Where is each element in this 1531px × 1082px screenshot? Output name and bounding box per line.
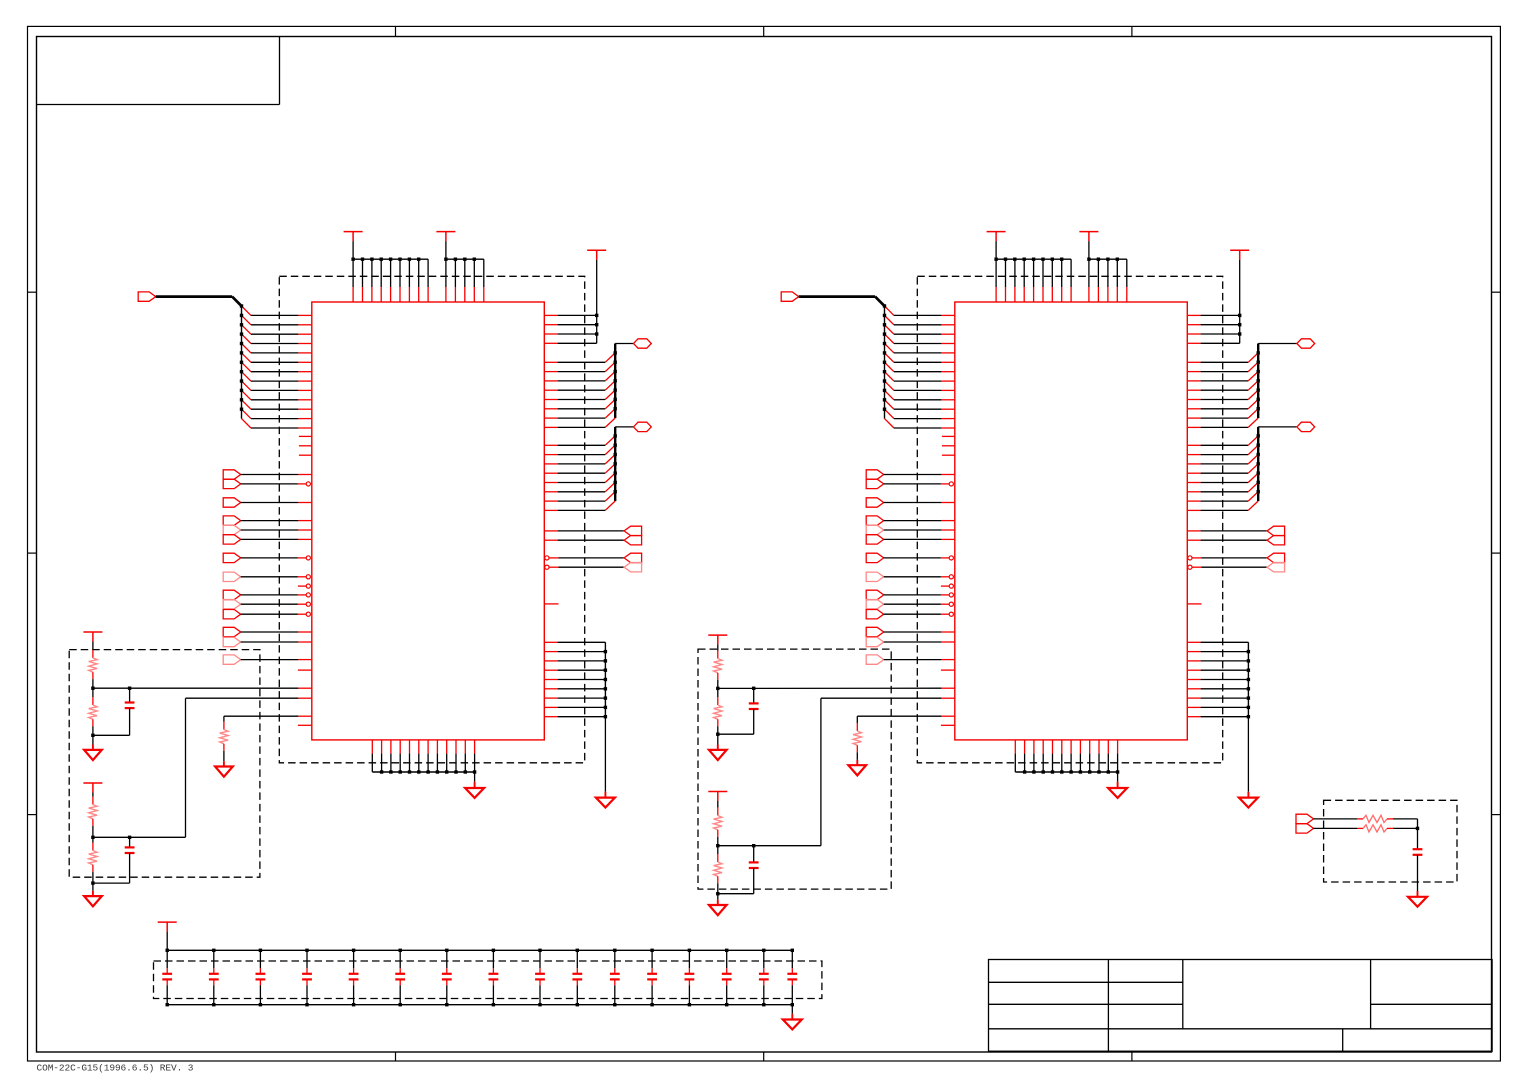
svg-text:COM-22C-G15(1996.6.5) REV. 3: COM-22C-G15(1996.6.5) REV. 3 [37, 1063, 194, 1074]
